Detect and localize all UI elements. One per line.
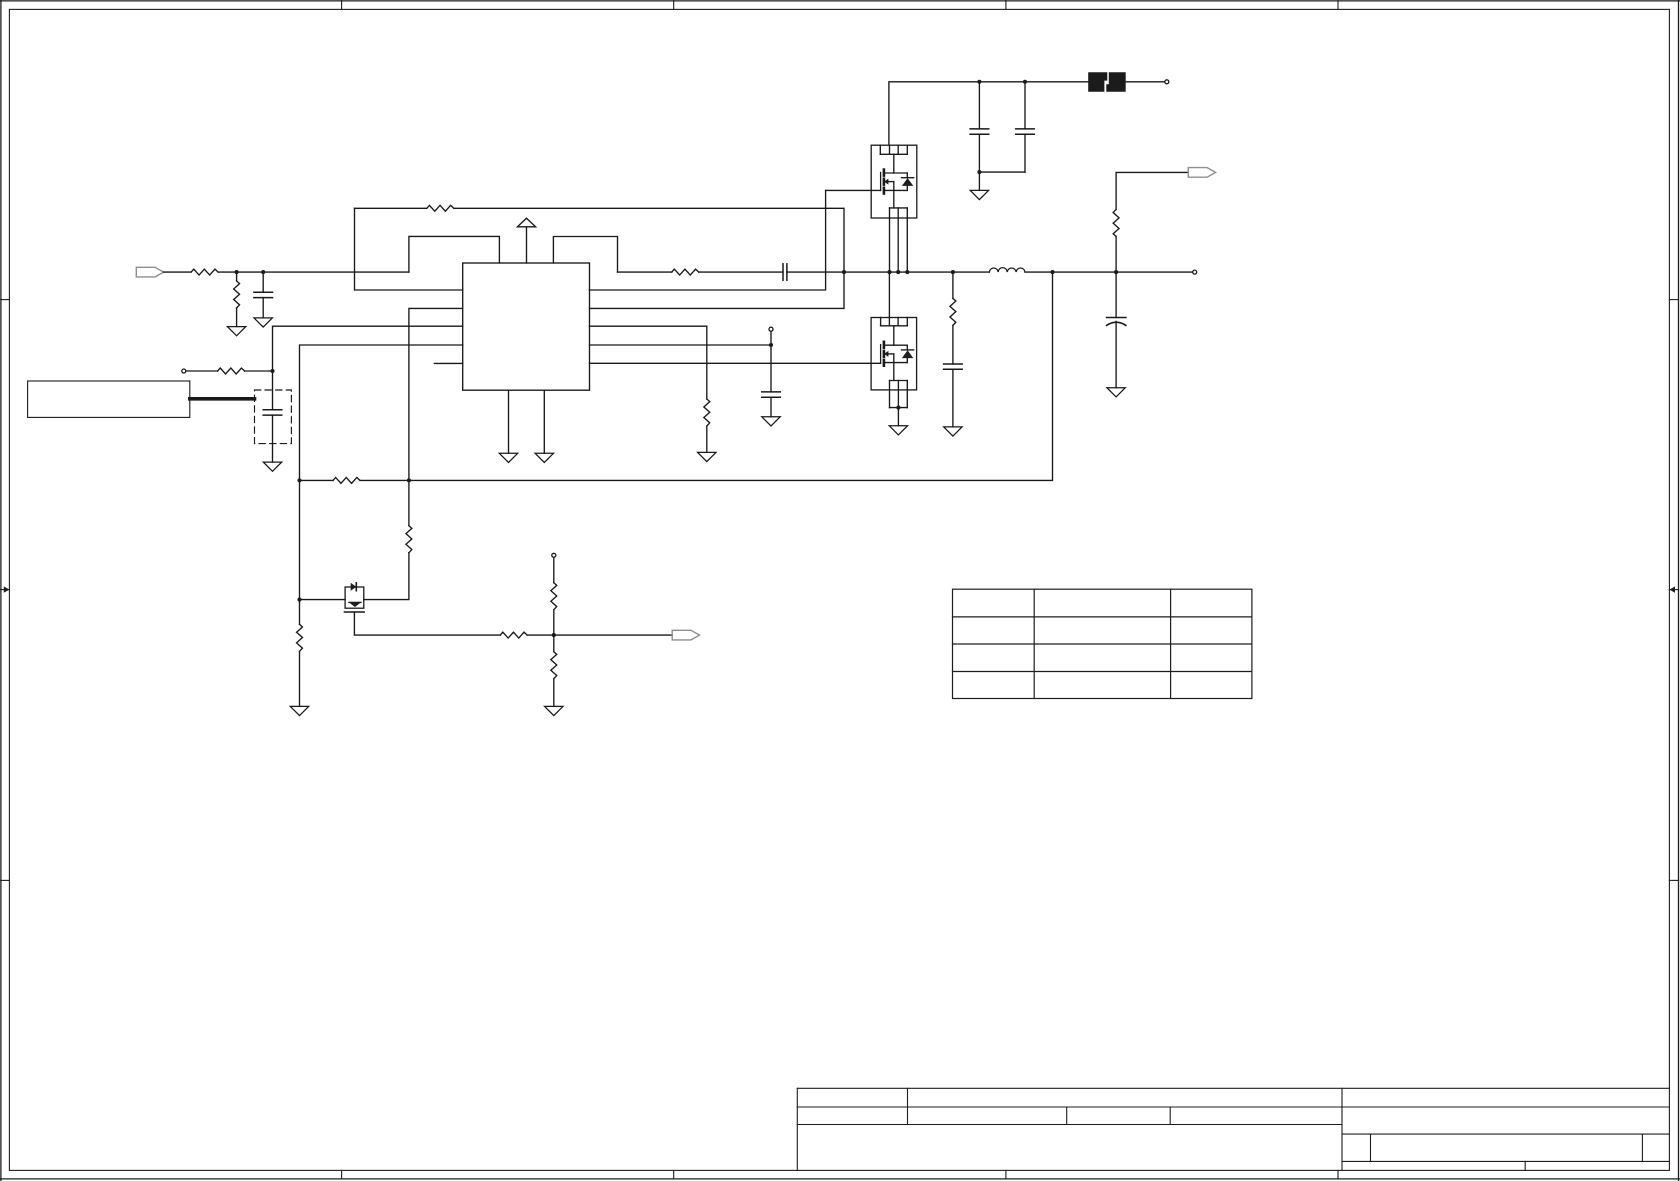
- wire VIN rail corner up to HDRV loop: [409, 236, 500, 272]
- node VIN1 junction: [235, 270, 239, 274]
- node snubber junction: [951, 270, 955, 274]
- ground GND10: [1107, 388, 1125, 397]
- node VOUT junction: [1114, 270, 1118, 274]
- resistor R12: [500, 632, 527, 638]
- Q1 drain pads: [880, 145, 907, 154]
- Q2 drain pads: [881, 318, 908, 326]
- resistor R11: [297, 600, 303, 707]
- power flag VCC arrow: [517, 218, 535, 263]
- wire Q1 gate lead: [826, 189, 881, 191]
- port P2 EN terminal circle: [182, 369, 186, 373]
- resistor R8 to VO flag: [1113, 172, 1188, 272]
- node C8 junction: [1023, 80, 1027, 84]
- capacitor C6 output polarized: [1107, 272, 1126, 388]
- wire U1 EN pin: [273, 326, 463, 371]
- wire U1 FB pin to divider: [355, 208, 463, 290]
- wire C7 C8 common node: [979, 171, 1025, 173]
- capacitor C2: [263, 410, 282, 462]
- Q1 source pads: [890, 208, 908, 218]
- wire FB return line: [300, 479, 334, 481]
- port P8 terminal circle: [552, 553, 556, 557]
- capacitor C2 optional dashed box: [255, 390, 292, 444]
- resistor R13: [551, 558, 557, 635]
- wire SW rail segment: [844, 271, 989, 273]
- ground GND12: [290, 706, 308, 715]
- resistor R4: [218, 368, 245, 374]
- op-amp U1 controller IC box: [463, 263, 590, 390]
- wire Q1 source leads to SW rail: [890, 218, 908, 272]
- revision table grid: [953, 589, 1252, 698]
- resistor R7 snubber: [950, 272, 956, 325]
- port P4 VOUT terminal circle: [1193, 270, 1197, 274]
- Q1 drain stem: [893, 154, 895, 173]
- wire SS riser mid segment: [408, 480, 410, 525]
- wire Q3 source down: [354, 612, 500, 635]
- zone ticks right border: [1669, 300, 1678, 881]
- wire U1 HDRV pin to Q1 gate riser: [590, 190, 826, 290]
- wire FB return line right: [360, 272, 1053, 480]
- node C7 gnd junction: [977, 170, 981, 174]
- inductor L1: [989, 268, 1025, 273]
- wire BST line with RC: [618, 271, 672, 273]
- resistor R10 on SS riser: [406, 526, 412, 553]
- wire COMP riser mid segment: [299, 480, 301, 599]
- wire A1 thick bus bar: [190, 397, 255, 401]
- port P7 SNS output flag: [672, 630, 699, 640]
- resistor R5: [704, 399, 710, 426]
- wire Q2 drain to SW rail: [888, 272, 890, 317]
- capacitor C4 series: [783, 264, 787, 281]
- node FB tap junction: [1050, 270, 1054, 274]
- ground GND8: [889, 426, 907, 435]
- fuse F1 solder jumper: [1088, 72, 1126, 92]
- wire Q1 drain riser to VIN top: [889, 82, 980, 145]
- ground GND6: [698, 452, 716, 461]
- wire VIN flag to R1: [164, 271, 192, 273]
- capacitor C8: [1016, 82, 1035, 172]
- wire U1 LDRV pin to Q2 gate: [590, 362, 881, 364]
- Q2 package box: [871, 318, 917, 390]
- wire VOUT rail: [1025, 271, 1192, 273]
- zone ticks left border: [1, 300, 10, 881]
- ground GND13: [545, 706, 563, 715]
- wire U1 ILIM pin: [590, 326, 707, 399]
- node VIN2 junction: [261, 270, 265, 274]
- capacitor C5 snubber: [944, 325, 963, 427]
- node C7 junction: [977, 80, 981, 84]
- node EN junction: [270, 369, 274, 373]
- ground GND2: [254, 318, 272, 327]
- wire VREG terminal stub: [770, 332, 772, 345]
- wire EN terminal to R4: [186, 370, 217, 372]
- title block right rows: [1342, 1107, 1669, 1170]
- transistor Q2 low-side MOSFET: [871, 318, 917, 408]
- wire R5 to ground: [706, 426, 708, 452]
- wire EN node down: [272, 371, 274, 410]
- wire U1 LX pin: [590, 272, 845, 308]
- Q1 body diode: [902, 173, 914, 190]
- resistor R6: [672, 269, 699, 275]
- node Q3 gate junction: [297, 598, 301, 602]
- wire Q3 gate lead: [300, 599, 346, 601]
- Q1 package box: [871, 145, 917, 218]
- node SW junction: [842, 270, 846, 274]
- ground GND11: [970, 190, 988, 199]
- node SNS junction: [552, 633, 556, 637]
- Q2 drain stem: [893, 326, 895, 345]
- wire R4 to EN node: [245, 370, 273, 372]
- title block left rows: [797, 1088, 1342, 1124]
- ground GND4: [499, 453, 517, 462]
- capacitor C7: [970, 82, 989, 191]
- title block outline: [797, 1088, 1669, 1170]
- node FB return left junction: [297, 478, 301, 482]
- wire R1 to node VIN1: [218, 271, 409, 273]
- zone ticks top border: [342, 1, 1338, 10]
- node Q2 source junction: [896, 406, 900, 410]
- transistor Q1 high-side MOSFET: [871, 145, 917, 218]
- wire R10 to Q3 drain: [364, 553, 409, 600]
- wire U1 bottom pin AGND: [508, 390, 510, 453]
- ground GND1: [227, 327, 245, 336]
- centre arrow right border: [1669, 586, 1678, 592]
- ground GND9: [944, 427, 962, 436]
- wire C4 to SW node: [787, 271, 844, 273]
- node SW Q1 junctions: [887, 270, 909, 274]
- resistor R1: [191, 269, 218, 275]
- wire VIN top line: [979, 81, 1088, 83]
- resistor R2 pulldown: [234, 272, 240, 327]
- Q2 symbol: [881, 342, 908, 381]
- wire U1 bottom pin PGND: [543, 390, 545, 453]
- capacitor C1: [254, 272, 273, 318]
- wire R12 to SNS node: [527, 634, 672, 636]
- Q2 source pads: [890, 381, 908, 408]
- resistor R14: [551, 635, 557, 706]
- wire Q2 source to ground: [897, 408, 899, 426]
- Q2 body diode: [902, 345, 914, 362]
- wire FB line left segment: [355, 207, 427, 209]
- port P1 VIN input flag: [136, 267, 163, 277]
- wire U1 VREG pin: [590, 344, 772, 346]
- wire F1 to terminal: [1126, 81, 1165, 83]
- node VREG junction: [769, 343, 773, 347]
- port P6 terminal circle: [1165, 80, 1169, 84]
- Q1 symbol: [881, 170, 908, 208]
- wire FB line right segment: [454, 208, 844, 272]
- port P5 VO output flag: [1188, 168, 1215, 178]
- transistor Q3 small MOSFET: [344, 583, 364, 612]
- wire U1 SW-sense pin: [409, 308, 463, 480]
- capacitor C3: [762, 345, 781, 417]
- zone ticks bottom border: [342, 1170, 1338, 1179]
- module A1 block: [28, 381, 190, 417]
- centre arrow left border: [1, 586, 10, 592]
- wire R6 to C4: [699, 271, 783, 273]
- port P3 VREG terminal circle: [769, 327, 773, 331]
- wire U1 top pin to BST loop: [553, 237, 617, 273]
- node FB return mid junction: [407, 478, 411, 482]
- wire U1 NC stub pin: [434, 362, 462, 364]
- ground GND5: [535, 453, 553, 462]
- wire U1 COMP pin: [300, 345, 463, 480]
- resistor R9: [333, 477, 360, 483]
- resistor R3 feedback: [427, 205, 454, 211]
- ground GND7: [762, 417, 780, 426]
- ground GND3: [263, 462, 281, 471]
